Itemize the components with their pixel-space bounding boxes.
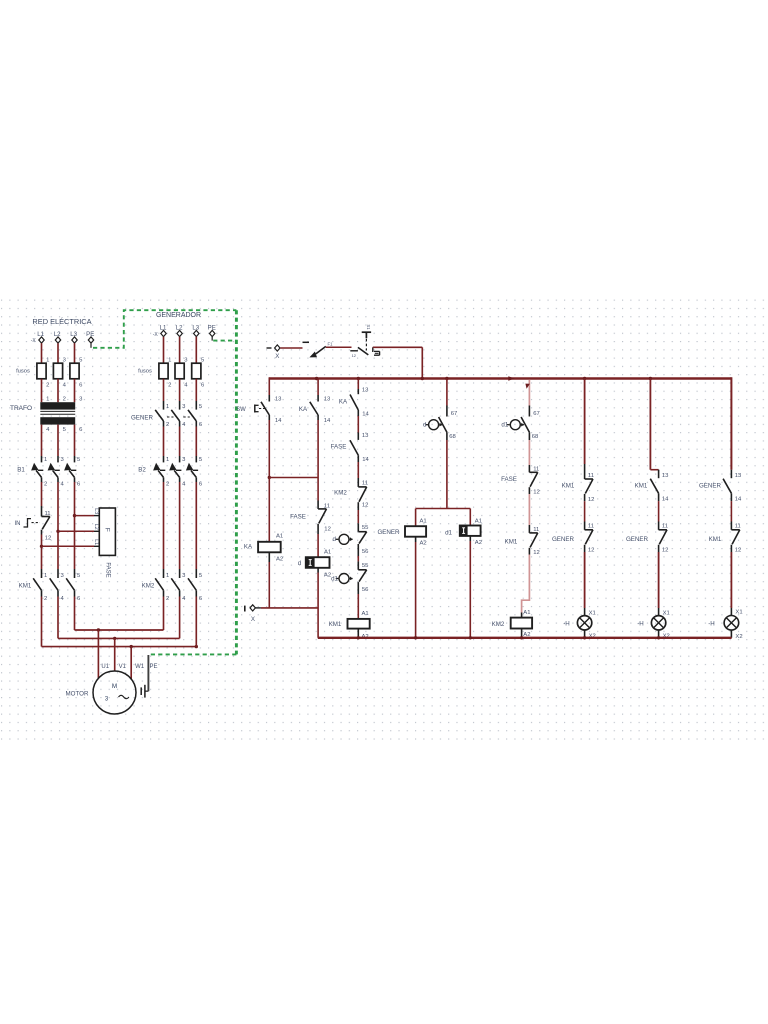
junction node V1 xyxy=(113,637,116,640)
svg-text:L2: L2 xyxy=(93,524,99,530)
junction node W1 xyxy=(130,645,133,648)
wire KM2 pole2 to V1 rail xyxy=(179,597,181,639)
wire terminal to F1 breaker element xyxy=(280,347,302,349)
svg-text:12: 12 xyxy=(324,527,331,533)
wire FASE to KM1 contact col E xyxy=(528,494,530,525)
svg-text:13: 13 xyxy=(735,473,742,479)
svg-text:11: 11 xyxy=(662,524,668,530)
wire L1 tap to F block xyxy=(42,545,95,547)
svg-text:KM2: KM2 xyxy=(334,490,347,497)
svg-text:-H: -H xyxy=(708,620,715,627)
svg-text:12: 12 xyxy=(45,536,52,542)
terminal L1 -X xyxy=(39,337,44,343)
junction node L3 to F block xyxy=(73,514,76,517)
selector switch S1 seats xyxy=(372,347,374,352)
PE pigtail generador xyxy=(211,337,213,341)
svg-text:KA: KA xyxy=(299,406,308,413)
svg-text:GENER: GENER xyxy=(552,536,575,543)
wire KA to FASE contact col C xyxy=(357,416,359,433)
svg-text:d: d xyxy=(333,536,337,543)
wire B1 pole3 to KM1 pole3 xyxy=(74,482,76,569)
wire KA coil to -X terminal line xyxy=(268,552,270,562)
svg-text:55: 55 xyxy=(362,525,369,531)
wire fuse to trafo L3 xyxy=(74,379,76,402)
F1 breaker element tick xyxy=(303,341,310,343)
svg-text:14: 14 xyxy=(662,496,669,502)
control supply terminal -X xyxy=(267,347,272,349)
junction node bus lamp2 xyxy=(649,377,652,380)
wire KM1 pole1 to W1 rail xyxy=(41,597,43,647)
phase monitor block F xyxy=(99,508,115,555)
wire KA contact to FASE contact col B xyxy=(317,420,319,501)
generador terminal L2 xyxy=(177,330,182,336)
svg-text:-H: -H xyxy=(563,620,570,627)
svg-text:L3: L3 xyxy=(93,508,99,514)
svg-text:W1: W1 xyxy=(135,664,145,670)
wire timed d1 to FASE contact col E xyxy=(528,440,530,465)
svg-text:X2: X2 xyxy=(735,634,742,640)
wire GENER coil to bottom bus xyxy=(415,537,417,542)
svg-text:11: 11 xyxy=(588,524,594,530)
svg-text:A1: A1 xyxy=(276,534,283,540)
control bottom bus to -X return xyxy=(318,637,732,639)
current arrow col E xyxy=(525,384,530,389)
svg-text:14: 14 xyxy=(324,418,331,424)
svg-text:14: 14 xyxy=(362,457,369,463)
breaker element F1 blade and arrow xyxy=(309,352,317,358)
svg-text:56: 56 xyxy=(362,587,369,593)
PE conductor to motor xyxy=(147,655,149,691)
wire KM2 pole3 to W1 rail xyxy=(195,597,197,647)
svg-text:12: 12 xyxy=(735,548,742,554)
svg-text:d1: d1 xyxy=(501,422,508,429)
wire B2 pole 2 to KM2 xyxy=(179,482,181,569)
wire d1 coil to bottom bus xyxy=(469,536,471,541)
svg-text:55: 55 xyxy=(362,563,369,569)
svg-text:1: 1 xyxy=(168,358,171,364)
svg-text:12: 12 xyxy=(533,550,540,556)
svg-text:A1: A1 xyxy=(475,518,482,524)
wire bus to KM1 contact lamp column 2 with jog xyxy=(649,379,651,470)
svg-text:FASE: FASE xyxy=(331,444,347,451)
transformer TRAFO secondary bar xyxy=(40,417,75,424)
svg-text:KA: KA xyxy=(339,399,348,406)
svg-text:V1: V1 xyxy=(119,664,127,670)
transformer TRAFO core lines xyxy=(40,410,75,412)
svg-text:X1: X1 xyxy=(589,611,596,617)
generador terminal PE xyxy=(210,330,215,336)
wire generador L1 terminal to fuse xyxy=(163,337,165,364)
svg-text:14: 14 xyxy=(735,496,742,502)
branch wire to GENER and d1 coils xyxy=(416,508,471,510)
generador fuse 3-4 xyxy=(175,363,184,379)
svg-text:2: 2 xyxy=(44,482,47,488)
svg-text:13: 13 xyxy=(662,473,669,479)
wire B2 pole 3 to KM2 xyxy=(195,482,197,569)
junction node bus col KM1 coil xyxy=(357,377,360,380)
wire drop to motor V1 xyxy=(114,638,116,671)
circuit breaker B1 pole 3 xyxy=(64,463,71,471)
wire generador fuse to GENER switch pole 2 xyxy=(179,379,181,401)
svg-text:2: 2 xyxy=(166,596,169,602)
svg-text:PE: PE xyxy=(149,664,157,670)
svg-text:A2: A2 xyxy=(324,573,331,579)
circuit breaker B2 pole 2 xyxy=(169,463,176,471)
svg-text:d1: d1 xyxy=(331,576,338,583)
junction node bus col d timed xyxy=(445,377,448,380)
wire SW contact down to node xyxy=(268,420,270,478)
svg-text:11: 11 xyxy=(735,524,741,530)
svg-text:B1: B1 xyxy=(17,467,25,474)
control return terminal -X xyxy=(244,606,246,612)
svg-text:1: 1 xyxy=(166,457,169,463)
junction node L1 to F block xyxy=(40,545,43,548)
svg-text:A1: A1 xyxy=(362,611,369,617)
svg-text:1: 1 xyxy=(46,397,49,403)
generador fuse 1-2 xyxy=(159,363,168,379)
svg-text:13: 13 xyxy=(362,388,369,394)
svg-text:GENER: GENER xyxy=(131,415,154,422)
svg-text:X: X xyxy=(251,616,255,623)
terminal L3 -X xyxy=(72,337,77,343)
svg-text:KM1: KM1 xyxy=(635,483,648,490)
wire IN to KM1 pole1 xyxy=(41,535,43,570)
svg-text:d: d xyxy=(423,422,427,429)
fuse 5-6 (red electrica) xyxy=(70,363,79,379)
svg-text:IN: IN xyxy=(15,521,21,527)
svg-text:fusos: fusos xyxy=(16,369,30,375)
switch GENER pole 1 xyxy=(155,410,163,421)
svg-text:1: 1 xyxy=(44,457,47,463)
wire node to KA coil xyxy=(268,478,270,542)
svg-text:11: 11 xyxy=(362,481,368,487)
svg-text:GENER: GENER xyxy=(699,483,722,490)
svg-text:KA: KA xyxy=(244,544,253,551)
svg-text:A1: A1 xyxy=(324,549,331,555)
wire B1 pole2 to KM1 pole2 xyxy=(57,482,59,569)
contactor KM2 power pole 3 xyxy=(188,578,196,590)
wire fuse to trafo L1 xyxy=(41,379,43,402)
wire -X terminal to col B xyxy=(261,607,318,609)
junction node col A xyxy=(268,476,271,479)
junction node bottom bus KM1 coil xyxy=(357,636,360,639)
svg-text:12: 12 xyxy=(662,548,669,554)
transformer TRAFO primary bar xyxy=(40,402,75,409)
svg-text:d1: d1 xyxy=(445,529,452,536)
wire GENER switch to B2 pole 3 xyxy=(195,427,197,457)
svg-text:FASE: FASE xyxy=(105,562,111,577)
wire FASE contact to timer coil d xyxy=(317,534,319,557)
wire KM1 coil to bottom bus xyxy=(357,629,359,638)
wire generador L3 terminal to fuse xyxy=(195,337,197,364)
svg-text:67: 67 xyxy=(451,411,458,417)
svg-text:KM2: KM2 xyxy=(492,621,505,628)
svg-text:KM1: KM1 xyxy=(505,539,518,546)
svg-text:2: 2 xyxy=(46,383,49,389)
selector switch S1 fixed seat tick xyxy=(350,350,358,352)
wire trafo to B1 pole 3 xyxy=(74,425,76,456)
svg-text:A1: A1 xyxy=(523,610,530,616)
wire timed d1 to KM1 coil xyxy=(357,594,359,619)
wire KM1 to GENER contact lamp2 xyxy=(658,501,660,521)
circuit breaker B1 pole 1 xyxy=(31,463,38,471)
current arrow on bus xyxy=(508,376,514,381)
wire bus to KA contact col B xyxy=(317,379,319,396)
svg-text:1: 1 xyxy=(166,404,169,410)
svg-text:12: 12 xyxy=(362,503,369,509)
circuit breaker B2 pole 3 xyxy=(186,463,193,471)
wire F1 to selector S1 xyxy=(326,346,352,348)
wire L2 tap to F block xyxy=(58,530,94,532)
wire fuse to trafo L2 xyxy=(57,379,59,402)
PE pigtail red electrica xyxy=(90,343,92,348)
svg-text:U1: U1 xyxy=(101,664,109,670)
svg-text:S1: S1 xyxy=(366,324,371,330)
wire KM1 contact to lamp 3 xyxy=(730,552,732,608)
svg-text:KM2: KM2 xyxy=(142,583,155,590)
wire KM1 to GENER contact lamp1 xyxy=(584,501,586,521)
svg-text:L1: L1 xyxy=(93,539,99,545)
wire L1 terminal to fuse xyxy=(41,343,43,363)
wire bus to KA contact col C xyxy=(357,379,359,390)
wire generador fuse to GENER switch pole 3 xyxy=(195,379,197,401)
switch GENER pole 2 xyxy=(171,410,179,421)
svg-text:2: 2 xyxy=(44,596,47,602)
wire B2 pole 1 to KM2 xyxy=(163,482,165,569)
junction node U1 xyxy=(97,628,100,631)
control top bus L+ xyxy=(269,377,731,379)
wire KM2 coil to bottom bus xyxy=(521,629,523,638)
svg-text:68: 68 xyxy=(532,434,539,440)
wire GENER to KM1 contact lamp3 xyxy=(730,501,732,521)
PE green conductor generador to edge xyxy=(213,340,236,342)
contactor KM2 power pole 2 xyxy=(171,578,179,590)
svg-text:KM1: KM1 xyxy=(329,621,342,628)
junction node bus col KA contact 1 xyxy=(315,377,318,380)
motor PE frame connection bars xyxy=(144,685,146,698)
wire KM2 contact to timed contact d xyxy=(357,510,359,523)
contactor KM1 power pole 1 xyxy=(33,578,41,590)
wire bus to SW contact xyxy=(268,377,270,395)
wire timed d to timed d1 xyxy=(357,556,359,561)
junction node bottom bus lamp2 xyxy=(657,636,660,639)
svg-text:F: F xyxy=(104,528,111,532)
svg-text:X1: X1 xyxy=(735,610,742,616)
svg-text:13: 13 xyxy=(324,396,331,402)
wire L2 terminal to fuse xyxy=(57,343,59,363)
svg-text:X: X xyxy=(275,353,279,360)
svg-text:MOTOR: MOTOR xyxy=(66,691,89,698)
svg-text:14: 14 xyxy=(362,412,369,418)
svg-text:67: 67 xyxy=(533,411,540,417)
svg-text:GENER: GENER xyxy=(626,536,649,543)
wire timed d to coil branch xyxy=(446,440,448,509)
wire trafo to B1 pole 1 xyxy=(41,425,43,456)
svg-text:X1: X1 xyxy=(663,611,670,617)
svg-text:A2: A2 xyxy=(475,540,482,546)
svg-text:GENER: GENER xyxy=(377,529,400,536)
wire GENER contact to lamp 2 xyxy=(658,552,660,608)
circuit breaker B2 pole 1 xyxy=(153,463,160,471)
svg-text:B2: B2 xyxy=(138,467,146,474)
svg-text:KM1: KM1 xyxy=(562,483,575,490)
wire selector to control bus xyxy=(373,346,423,348)
svg-text:68: 68 xyxy=(449,434,456,440)
wire link col A to col B xyxy=(269,477,318,479)
svg-text:1: 1 xyxy=(46,358,49,364)
svg-text:2: 2 xyxy=(63,397,66,403)
svg-text:1: 1 xyxy=(166,573,169,579)
auxiliary contact IN (NC) on L1 xyxy=(42,516,50,518)
junction node bottom bus GENER coil xyxy=(414,636,417,639)
motor M 3~ xyxy=(93,671,136,714)
svg-text:fusos: fusos xyxy=(138,369,152,375)
terminal L2 -X xyxy=(55,337,60,343)
wire B1 pole1 down to IN contact xyxy=(41,482,43,506)
svg-text:-X: -X xyxy=(153,332,159,338)
svg-text:12: 12 xyxy=(352,353,356,358)
wire bus to timed contact d 67-68 xyxy=(446,379,448,406)
wire KM2 pole1 to U1 rail xyxy=(163,597,165,631)
wire KM1 pole3 to U1 rail xyxy=(74,597,76,631)
wire bus to KM1 contact lamp column 1 xyxy=(584,379,586,465)
wire generador L2 terminal to fuse xyxy=(179,337,181,364)
circuit breaker B1 pole 2 xyxy=(48,463,55,471)
contactor KM1 power pole 2 xyxy=(50,578,58,590)
junction node bottom bus lamp1 xyxy=(583,636,586,639)
wire GENER switch to B2 pole 1 xyxy=(163,427,165,457)
svg-text:-H: -H xyxy=(637,620,644,627)
generador terminal L1 xyxy=(161,330,166,336)
wire drop to motor U1 xyxy=(97,630,99,678)
selector switch S1 blade xyxy=(358,347,368,355)
junction node bus lamp1 xyxy=(583,377,586,380)
svg-text:-X: -X xyxy=(31,338,37,344)
svg-text:TRAFO: TRAFO xyxy=(10,405,32,412)
wire KM1 pole2 to V1 rail xyxy=(57,597,59,639)
wire FASE to KM2 contact col C xyxy=(357,462,359,478)
wire d coil to bottom bus xyxy=(317,568,319,573)
contactor KM1 power pole 3 xyxy=(66,578,74,590)
svg-text:13: 13 xyxy=(362,433,369,439)
svg-text:SW: SW xyxy=(236,407,246,413)
svg-text:KM1: KM1 xyxy=(709,536,722,543)
generador fuse 5-6 xyxy=(192,363,201,379)
junction node KM2 pole3 corner xyxy=(195,645,198,648)
wire GENER contact to lamp 1 xyxy=(584,552,586,608)
contactor KM2 power pole 1 xyxy=(155,578,163,590)
svg-text:56: 56 xyxy=(362,549,369,555)
svg-text:M: M xyxy=(112,683,117,690)
GENER switch mechanical link dashes xyxy=(167,416,174,418)
svg-text:A2: A2 xyxy=(420,540,427,546)
svg-text:14: 14 xyxy=(275,418,282,424)
svg-text:2: 2 xyxy=(168,383,171,389)
wire L3 tap to F block xyxy=(75,515,95,517)
svg-text:FASE: FASE xyxy=(501,476,517,483)
wire L3 terminal to fuse xyxy=(74,343,76,363)
svg-text:1: 1 xyxy=(44,573,47,579)
wire KM1 contact to KM2 coil (jog) xyxy=(522,555,530,613)
PE green conductor from red electrica around generador to motor xyxy=(93,310,236,348)
svg-text:KM1: KM1 xyxy=(19,583,32,590)
wire bus right edge down to GENER contact lamp3 xyxy=(730,377,732,469)
fuse 1-2 (red electrica) xyxy=(37,363,46,379)
wire GENER switch to B2 pole 2 xyxy=(179,427,181,457)
svg-text:2: 2 xyxy=(166,482,169,488)
wire drop to motor W1 xyxy=(130,647,132,679)
svg-text:A1: A1 xyxy=(420,518,427,524)
wire bus to timed contact d1 67-68 (energized pink) xyxy=(528,380,530,406)
svg-text:FASE: FASE xyxy=(290,514,306,521)
svg-text:12: 12 xyxy=(588,497,595,503)
svg-text:F1: F1 xyxy=(328,342,334,347)
svg-text:12: 12 xyxy=(588,548,595,554)
svg-text:A2: A2 xyxy=(276,557,283,563)
wire trafo to B1 pole 2 xyxy=(57,425,59,456)
svg-text:13: 13 xyxy=(275,396,282,402)
svg-text:12: 12 xyxy=(533,490,540,496)
generador terminal L3 xyxy=(194,330,199,336)
wire generador fuse to GENER switch pole 1 xyxy=(163,379,165,401)
junction node L2 to F block xyxy=(56,530,59,533)
switch GENER pole 3 xyxy=(188,410,196,421)
fuse 3-4 (red electrica) xyxy=(53,363,62,379)
junction node bottom bus d1 coil xyxy=(469,636,472,639)
svg-text:2: 2 xyxy=(166,422,169,428)
svg-text:GENERADOR: GENERADOR xyxy=(156,312,201,319)
svg-text:RED ELÉCTRICA: RED ELÉCTRICA xyxy=(32,317,91,326)
junction node bottom bus KM2 coil xyxy=(520,636,523,639)
svg-text:d: d xyxy=(298,560,302,567)
junction node bus feed xyxy=(421,377,424,380)
terminal PE -X xyxy=(88,337,93,343)
